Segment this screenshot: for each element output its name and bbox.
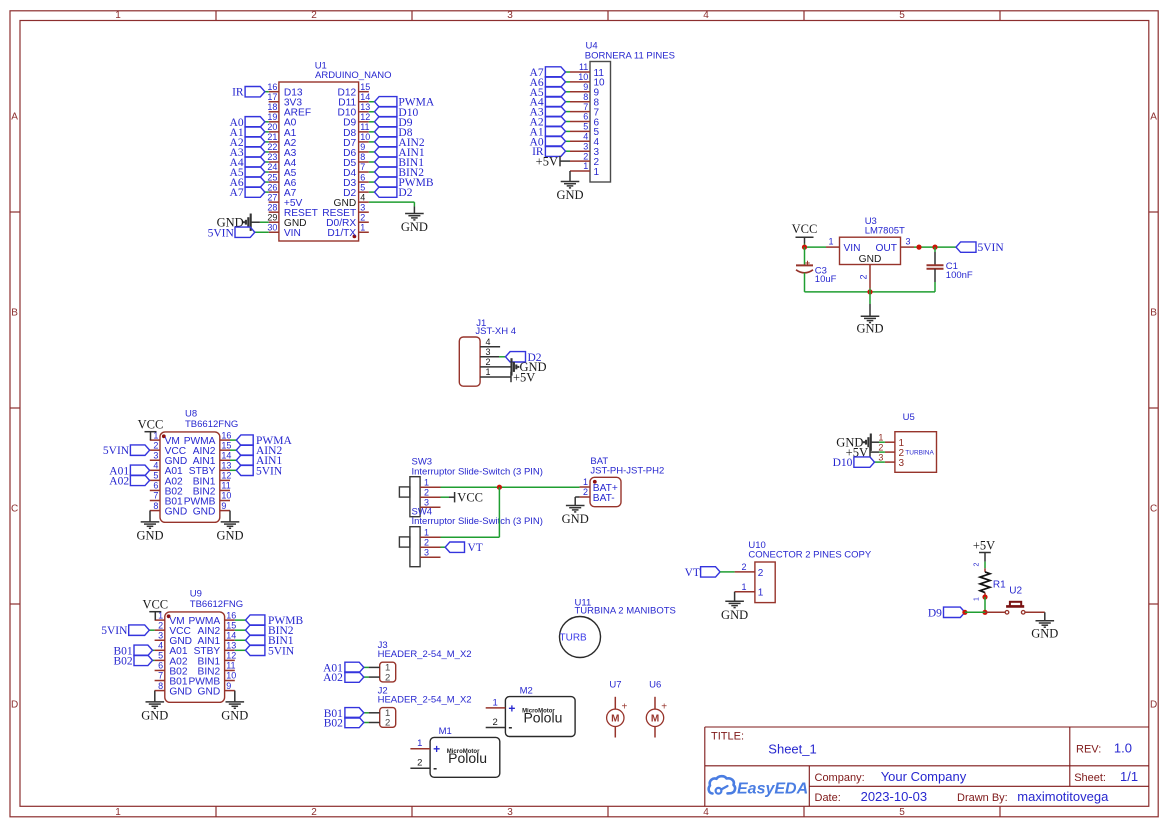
svg-text:D2: D2 [398, 187, 412, 199]
net flag A7 U4 [545, 67, 565, 77]
wire U9.15-BIN2 [235, 629, 246, 631]
svg-text:1: 1 [583, 161, 588, 171]
connector U4 BORNERA 11 PINES [590, 62, 611, 183]
svg-text:+5V: +5V [973, 539, 995, 553]
power VCC SW3.2 [441, 496, 450, 498]
wire C1 bottom [934, 269, 936, 282]
motor U7 [607, 709, 624, 726]
svg-text:IR: IR [232, 87, 244, 99]
svg-text:B02: B02 [324, 718, 343, 730]
svg-text:+: + [622, 702, 628, 713]
svg-text:3: 3 [507, 10, 513, 21]
R1 pin 1 [984, 593, 986, 596]
svg-text:HEADER_2-54_M_X2: HEADER_2-54_M_X2 [378, 649, 472, 660]
svg-text:TURBINA 2 MANIBOTS: TURBINA 2 MANIBOTS [575, 606, 676, 617]
M1 pin 2 [410, 767, 430, 769]
U9 pin 2 [155, 629, 165, 631]
net flag A02 U8 [130, 475, 149, 485]
U4 pin 1 [570, 170, 590, 172]
node SW3 junction [497, 485, 502, 490]
U8 pin 12 [220, 479, 230, 481]
svg-text:+5V: +5V [536, 154, 558, 168]
ground BAT.2 [566, 505, 585, 507]
svg-text:8: 8 [583, 92, 588, 102]
svg-text:5VIN: 5VIN [101, 625, 128, 637]
BAT pin 2 [580, 496, 590, 498]
U5 pin 2 [885, 451, 895, 453]
net flag 5VIN U9.2 [129, 625, 150, 635]
U8 pin 4 [150, 469, 160, 471]
svg-text:JST-PH-JST-PH2: JST-PH-JST-PH2 [590, 466, 664, 477]
svg-text:3: 3 [878, 452, 883, 462]
U4 pin 7 [570, 111, 590, 113]
U9 pin 12 [225, 659, 235, 661]
switch SW4 [410, 527, 420, 567]
wire U8.16-PWMA [230, 439, 236, 441]
svg-text:16: 16 [221, 430, 231, 440]
svg-text:7: 7 [158, 671, 163, 681]
svg-text:M1: M1 [439, 726, 452, 737]
J2 pin 1 [369, 712, 380, 714]
wire VCC-C3 [804, 247, 806, 265]
wire A2-U4 [566, 121, 571, 123]
J1 pin 1 [480, 376, 511, 378]
SW3 pin 2 [420, 496, 440, 498]
SW4 pin 1 [420, 536, 440, 538]
svg-text:2: 2 [878, 442, 883, 452]
svg-text:Date:: Date: [815, 792, 841, 804]
U8 pin 8 [150, 510, 160, 512]
svg-text:+: + [661, 702, 667, 713]
net flag D2 [375, 187, 397, 197]
svg-text:10: 10 [578, 72, 588, 82]
U9 pin 13 [225, 649, 235, 651]
wire B02-J2 [364, 722, 369, 724]
svg-text:A02: A02 [323, 672, 343, 684]
svg-text:Company:: Company: [815, 772, 865, 784]
net flag 5VIN U3 [956, 242, 976, 252]
capacitor C1 [927, 264, 944, 266]
wire D10-U5.3 [875, 461, 885, 463]
svg-text:1/1: 1/1 [1120, 769, 1138, 784]
svg-text:12: 12 [221, 471, 231, 481]
U1 pin 26 [269, 191, 279, 193]
U6 pin 1 [654, 697, 656, 709]
U1 pin 6 [359, 181, 369, 183]
U9 pin 15 [225, 629, 235, 631]
wire U9.14-BIN1 [235, 639, 246, 641]
svg-text:6: 6 [583, 112, 588, 122]
U1 pin 23 [269, 161, 279, 163]
wire U1-BIN2 [369, 171, 375, 173]
svg-text:5VIN: 5VIN [268, 645, 295, 657]
connector J1 JST-XH4 [459, 337, 480, 386]
wire U1-D2 [369, 191, 375, 193]
connector U10 [755, 562, 775, 603]
svg-text:1: 1 [594, 167, 600, 178]
svg-text:6: 6 [360, 172, 365, 182]
svg-text:U9: U9 [190, 589, 202, 600]
J1 pin 4 [480, 346, 500, 348]
wire U2 left [985, 611, 1005, 613]
svg-text:3: 3 [360, 202, 365, 212]
svg-text:-: - [433, 761, 437, 775]
svg-text:1: 1 [485, 367, 490, 377]
svg-text:1: 1 [741, 582, 746, 592]
U10 pin 2 [735, 571, 755, 573]
U9 pin 14 [225, 639, 235, 641]
U9 pin 10 [225, 680, 235, 682]
svg-text:5: 5 [158, 651, 163, 661]
svg-text:21: 21 [267, 132, 277, 142]
U8 pin 13 [220, 469, 230, 471]
svg-text:VIN: VIN [844, 243, 861, 254]
svg-text:+: + [433, 742, 440, 756]
wire U8.13-5VIN [230, 469, 236, 471]
switch SW3 [410, 477, 420, 517]
svg-text:EasyEDA: EasyEDA [737, 781, 808, 798]
U4 pin 11 [570, 71, 590, 73]
wire U4.1-GND [569, 171, 571, 182]
svg-text:Pololu: Pololu [523, 709, 562, 725]
U1 pin 29 [269, 221, 279, 223]
svg-text:M: M [651, 714, 659, 725]
wire B01-U9 [153, 649, 155, 651]
svg-text:B02: B02 [114, 655, 133, 667]
svg-text:U2: U2 [1009, 586, 1022, 597]
svg-text:Sheet:: Sheet: [1074, 772, 1106, 784]
net flag A01 U8 [130, 465, 149, 475]
wire U1-D10 [369, 111, 375, 113]
wire U8.15-AIN2 [230, 449, 236, 451]
U3 pin 3 [901, 246, 915, 248]
svg-text:12: 12 [226, 651, 236, 661]
wire D9-U2 [965, 611, 985, 613]
svg-text:7: 7 [583, 102, 588, 112]
wire GND-U5.1 [871, 441, 879, 443]
connector U5 TURBINA [895, 432, 937, 473]
svg-text:-: - [508, 720, 512, 734]
svg-text:Interruptor Slide-Switch (3 PI: Interruptor Slide-Switch (3 PIN) [412, 466, 543, 477]
svg-text:11: 11 [360, 122, 369, 132]
power +5V U4.2 [560, 160, 570, 162]
svg-text:VIN: VIN [284, 228, 301, 239]
frame ticks [215, 11, 217, 21]
net flag 5VIN U9.13 [246, 645, 265, 655]
svg-text:D1/TX: D1/TX [327, 228, 356, 239]
svg-text:13: 13 [226, 641, 236, 651]
svg-text:GND: GND [556, 188, 583, 202]
svg-text:D: D [1150, 699, 1157, 710]
ic U1 ARDUINO_NANO [279, 82, 359, 241]
svg-text:13: 13 [221, 461, 231, 471]
U10 pin 1 [735, 591, 755, 593]
svg-text:22: 22 [267, 142, 277, 152]
svg-text:3: 3 [424, 547, 429, 557]
wire U3.2-GND [869, 289, 871, 292]
svg-text:JST-XH 4: JST-XH 4 [475, 326, 516, 337]
U1 pin 17 [269, 101, 279, 103]
U1 pin 21 [269, 141, 279, 143]
turbine U11 [560, 617, 601, 658]
node OUT junction 1 [916, 245, 921, 250]
node R1 junction [982, 594, 987, 599]
svg-text:2: 2 [583, 487, 588, 497]
wire A0-U1.19 [265, 121, 269, 123]
ground flag U1.29 [250, 214, 252, 231]
svg-text:VT: VT [468, 542, 483, 554]
svg-text:11: 11 [226, 661, 235, 671]
U8 pin 2 [150, 449, 160, 451]
net flag PWMB [375, 177, 397, 187]
svg-text:A: A [11, 111, 18, 122]
svg-text:18: 18 [267, 102, 277, 112]
svg-text:14: 14 [226, 630, 236, 640]
svg-text:Interruptor Slide-Switch (3 PI: Interruptor Slide-Switch (3 PIN) [412, 516, 543, 527]
svg-text:26: 26 [267, 182, 277, 192]
U1 pin 13 [359, 111, 369, 113]
net flag 5VIN U1.30 [235, 227, 255, 237]
U1 pin 24 [269, 171, 279, 173]
net flag A6 [245, 177, 265, 187]
U1 pin 14 [359, 101, 369, 103]
wire U8.8-GND [149, 511, 151, 522]
svg-text:TURBINA: TURBINA [905, 449, 934, 456]
svg-text:11: 11 [221, 481, 230, 491]
U1 pin 22 [269, 151, 279, 153]
svg-text:VT: VT [685, 567, 700, 579]
svg-text:10: 10 [226, 671, 236, 681]
svg-text:3: 3 [583, 141, 588, 151]
svg-text:1: 1 [424, 477, 429, 487]
svg-text:GND: GND [221, 708, 248, 722]
svg-text:A7: A7 [230, 187, 244, 199]
svg-text:VCC: VCC [138, 418, 164, 432]
J2 pin 2 [369, 722, 380, 724]
svg-text:1: 1 [115, 807, 121, 818]
net flag D8 [375, 127, 397, 137]
svg-text:D: D [11, 699, 18, 710]
net flag AIN2 U8.15 [236, 445, 253, 455]
svg-text:TB6612FNG: TB6612FNG [190, 599, 243, 610]
SW4 pin 2 [420, 546, 440, 548]
svg-text:LM7805T: LM7805T [865, 226, 905, 237]
svg-text:1.0: 1.0 [1114, 741, 1132, 756]
svg-text:1: 1 [424, 527, 429, 537]
svg-text:2: 2 [424, 487, 429, 497]
U1 pin 1 [359, 231, 369, 233]
U1 pin 5 [359, 191, 369, 193]
svg-text:9: 9 [360, 142, 365, 152]
U4 pin 5 [570, 130, 590, 132]
net flag B01 J2 [345, 708, 364, 718]
net flag AIN1 [375, 147, 397, 157]
svg-text:U7: U7 [609, 680, 621, 691]
U1 pin 15 [359, 91, 369, 93]
U8 pin 16 [220, 439, 230, 441]
U1 pin 30 [269, 231, 279, 233]
U8 pin 1 [150, 439, 160, 441]
svg-text:27: 27 [267, 192, 277, 202]
svg-text:2: 2 [859, 274, 869, 279]
U9 pin 16 [225, 619, 235, 621]
svg-text:Pololu: Pololu [448, 750, 487, 766]
ground U8.8 [141, 521, 160, 523]
U8 pin 6 [150, 489, 160, 491]
net flag PWMB U9.16 [246, 615, 265, 625]
svg-text:VCC: VCC [792, 222, 818, 236]
net flag D9 [375, 117, 397, 127]
svg-text:12: 12 [360, 112, 370, 122]
wire SW3.1-BAT+ [441, 486, 580, 488]
svg-text:16: 16 [226, 610, 236, 620]
svg-text:Sheet_1: Sheet_1 [768, 742, 816, 757]
svg-text:1: 1 [360, 222, 365, 232]
U3 pin 1 [826, 246, 840, 248]
svg-text:M: M [611, 714, 619, 725]
svg-text:4: 4 [703, 807, 709, 818]
M2 pin 1 [486, 707, 506, 709]
svg-text:2: 2 [485, 357, 490, 367]
node OUT junction 2 [932, 245, 937, 250]
svg-text:4: 4 [583, 132, 588, 142]
wire A3-U4 [566, 111, 571, 113]
wire U9.16-PWMB [235, 619, 246, 621]
svg-text:10uF: 10uF [815, 274, 837, 285]
svg-text:2: 2 [492, 717, 497, 728]
svg-text:14: 14 [360, 92, 370, 102]
net flag A4 [245, 157, 265, 167]
motor M2 Pololu [505, 697, 575, 737]
net flag PWMA [375, 97, 397, 107]
svg-text:TURB: TURB [560, 633, 588, 644]
ground U2 [1036, 620, 1055, 622]
svg-text:3: 3 [158, 630, 163, 640]
svg-text:GND: GND [721, 608, 748, 622]
U8 pin 14 [220, 459, 230, 461]
wire A6-U4 [566, 81, 571, 83]
U8 pin 3 [150, 459, 160, 461]
U5 pin 1 [885, 441, 895, 443]
wire 5VIN-U1.30 [255, 231, 269, 233]
node GND junction [867, 289, 872, 294]
U1 pin 20 [269, 131, 279, 133]
svg-text:3: 3 [906, 236, 911, 246]
U7 pin 2 [614, 727, 616, 738]
net flag D10 [854, 457, 875, 467]
BAT pin 1 [580, 486, 590, 488]
svg-text:+: + [508, 701, 515, 715]
net flag A3 [245, 147, 265, 157]
svg-text:15: 15 [221, 440, 231, 450]
wire A02-J3 [364, 676, 369, 678]
svg-text:C: C [1150, 503, 1157, 514]
svg-text:9: 9 [583, 82, 588, 92]
svg-text:D10: D10 [833, 457, 853, 469]
wire U1-BIN1 [369, 161, 375, 163]
svg-text:20: 20 [267, 122, 277, 132]
svg-text:2: 2 [974, 563, 981, 567]
net flag 5VIN U8.13 [236, 465, 253, 475]
wire +5V-R1 [984, 562, 986, 569]
net flag A0 [245, 117, 265, 127]
U8 pin1 marker dot [162, 434, 166, 438]
svg-text:5VIN: 5VIN [978, 242, 1005, 254]
wire A1-U1.20 [265, 131, 269, 133]
net flag A7 [245, 187, 265, 197]
svg-text:1: 1 [115, 10, 121, 21]
net flag 5VIN U8.2 [130, 445, 149, 455]
svg-text:BAT-: BAT- [593, 493, 615, 504]
svg-text:2: 2 [741, 562, 746, 572]
wire VCC-U3.1 [804, 244, 806, 248]
wire U3.3-5VIN [914, 246, 956, 248]
wire U1-D8 [369, 131, 375, 133]
SW3 pin 3 [420, 506, 440, 508]
svg-text:11: 11 [579, 62, 588, 72]
U9 pin 11 [225, 669, 235, 671]
U1 pin 12 [359, 121, 369, 123]
connector J2 [380, 708, 396, 728]
U9 pin 3 [155, 639, 165, 641]
U6 pin 2 [654, 727, 656, 738]
svg-text:2: 2 [758, 568, 764, 579]
ground U9.8 [146, 701, 165, 703]
svg-text:A02: A02 [109, 475, 129, 487]
wire U9.13-5VIN [235, 649, 246, 651]
svg-text:2023-10-03: 2023-10-03 [861, 789, 928, 804]
net flag A1 [245, 127, 265, 137]
svg-text:C: C [11, 503, 18, 514]
U9 pin 4 [155, 649, 165, 651]
svg-text:5: 5 [583, 122, 588, 132]
wire A3-U1.22 [265, 151, 269, 153]
node VCC junction [802, 245, 807, 250]
ground U4.1 [561, 181, 580, 183]
svg-text:M2: M2 [520, 685, 533, 696]
net flag AIN1 U8.14 [236, 455, 253, 465]
capacitor C3 [796, 264, 813, 266]
net flag A02 J3 [345, 672, 364, 682]
wire A01-U8 [149, 469, 151, 471]
SW3 pin 1 [420, 486, 440, 488]
svg-text:OUT: OUT [875, 243, 897, 254]
svg-text:10: 10 [360, 132, 370, 142]
EasyEDA logo [709, 776, 735, 794]
svg-text:5VIN: 5VIN [256, 465, 283, 477]
svg-text:19: 19 [267, 112, 277, 122]
svg-text:VCC: VCC [142, 598, 168, 612]
svg-text:B: B [11, 307, 18, 318]
svg-text:+5V: +5V [513, 370, 535, 384]
net flag A4 U4 [545, 97, 565, 107]
svg-text:15: 15 [360, 82, 370, 92]
wire U1-AIN2 [369, 141, 375, 143]
wire A5-U4 [566, 91, 571, 93]
U1 pin 19 [269, 121, 279, 123]
wire U2-GND [1025, 611, 1045, 613]
svg-text:D9: D9 [928, 607, 942, 619]
net flag B02 U9 [134, 655, 153, 665]
svg-text:4: 4 [703, 10, 709, 21]
svg-text:15: 15 [226, 620, 236, 630]
U1 pin 16 [269, 91, 279, 93]
wire R1-D9 rail [984, 597, 986, 612]
wire IR-U4 [566, 150, 571, 152]
U1 pin1 marker dot [353, 235, 357, 239]
U1 pin 27 [269, 201, 279, 203]
U9 pin 5 [155, 659, 165, 661]
